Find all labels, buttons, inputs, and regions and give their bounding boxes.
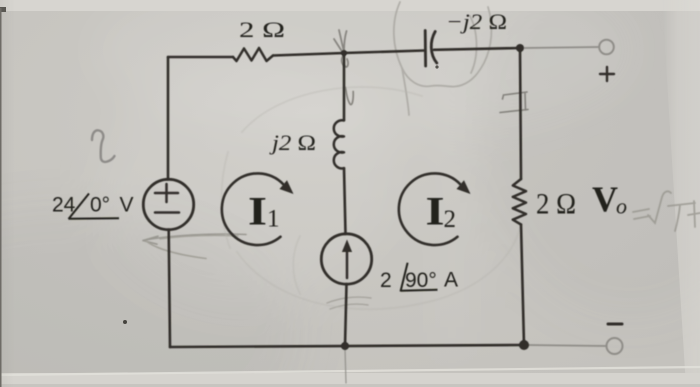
- svg-text:j2 Ω: j2 Ω: [269, 130, 316, 155]
- svg-text:−j2 Ω: −j2 Ω: [446, 9, 507, 34]
- svg-text:V: V: [120, 194, 134, 217]
- svg-text:90°: 90°: [405, 269, 437, 292]
- svg-text:2: 2: [444, 206, 457, 233]
- svg-text:2 Ω: 2 Ω: [239, 17, 285, 42]
- svg-text:A: A: [444, 269, 458, 292]
- svg-text:o: o: [616, 194, 627, 219]
- svg-text:0°: 0°: [90, 194, 110, 217]
- svg-text:1: 1: [267, 206, 280, 233]
- svg-text:I: I: [248, 189, 267, 234]
- svg-text:I: I: [426, 189, 445, 234]
- svg-text:2 Ω: 2 Ω: [536, 188, 576, 221]
- svg-text:V: V: [592, 179, 618, 219]
- svg-text:2: 2: [380, 269, 392, 292]
